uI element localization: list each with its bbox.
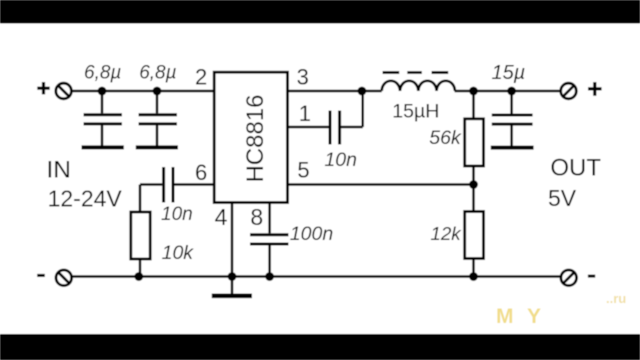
svg-text:5: 5 (297, 158, 309, 183)
svg-text:6: 6 (195, 160, 207, 185)
svg-text:Y: Y (527, 305, 541, 328)
svg-text:10n: 10n (161, 204, 193, 225)
svg-text:M: M (496, 305, 514, 328)
svg-text:HC8816: HC8816 (242, 94, 269, 182)
svg-text:10k: 10k (162, 242, 195, 264)
svg-text:..ru: ..ru (606, 291, 626, 306)
svg-text:56k: 56k (429, 127, 462, 149)
svg-text:1: 1 (299, 101, 311, 126)
svg-text:IN: IN (47, 157, 72, 184)
svg-text:100n: 100n (290, 223, 333, 245)
svg-text:3: 3 (297, 64, 309, 89)
svg-text:12-24V: 12-24V (48, 186, 123, 212)
svg-text:15µH: 15µH (392, 100, 439, 122)
svg-text:8: 8 (250, 204, 263, 230)
svg-text:4: 4 (215, 204, 228, 230)
svg-text:2: 2 (195, 64, 207, 89)
svg-text:6,8µ: 6,8µ (84, 62, 121, 83)
svg-text:10n: 10n (324, 149, 357, 171)
svg-text:12k: 12k (430, 223, 462, 244)
svg-text:OUT: OUT (550, 155, 601, 182)
svg-text:5V: 5V (548, 185, 577, 211)
svg-text:15µ: 15µ (492, 62, 526, 84)
svg-text:6,8µ: 6,8µ (139, 62, 176, 83)
